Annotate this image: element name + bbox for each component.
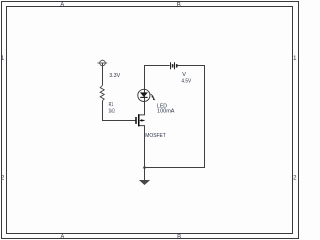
svg-text:4.5V: 4.5V xyxy=(181,79,191,85)
svg-text:A: A xyxy=(60,2,64,8)
svg-text:MOSFET: MOSFET xyxy=(145,133,166,139)
svg-text:A: A xyxy=(60,235,64,240)
svg-text:3.3V: 3.3V xyxy=(109,73,120,79)
svg-text:1kΩ: 1kΩ xyxy=(108,109,114,115)
svg-text:V: V xyxy=(182,72,186,78)
svg-text:100mA: 100mA xyxy=(157,108,175,114)
svg-text:B: B xyxy=(177,235,181,240)
svg-text:B: B xyxy=(177,2,181,8)
svg-text:R1: R1 xyxy=(109,102,114,108)
